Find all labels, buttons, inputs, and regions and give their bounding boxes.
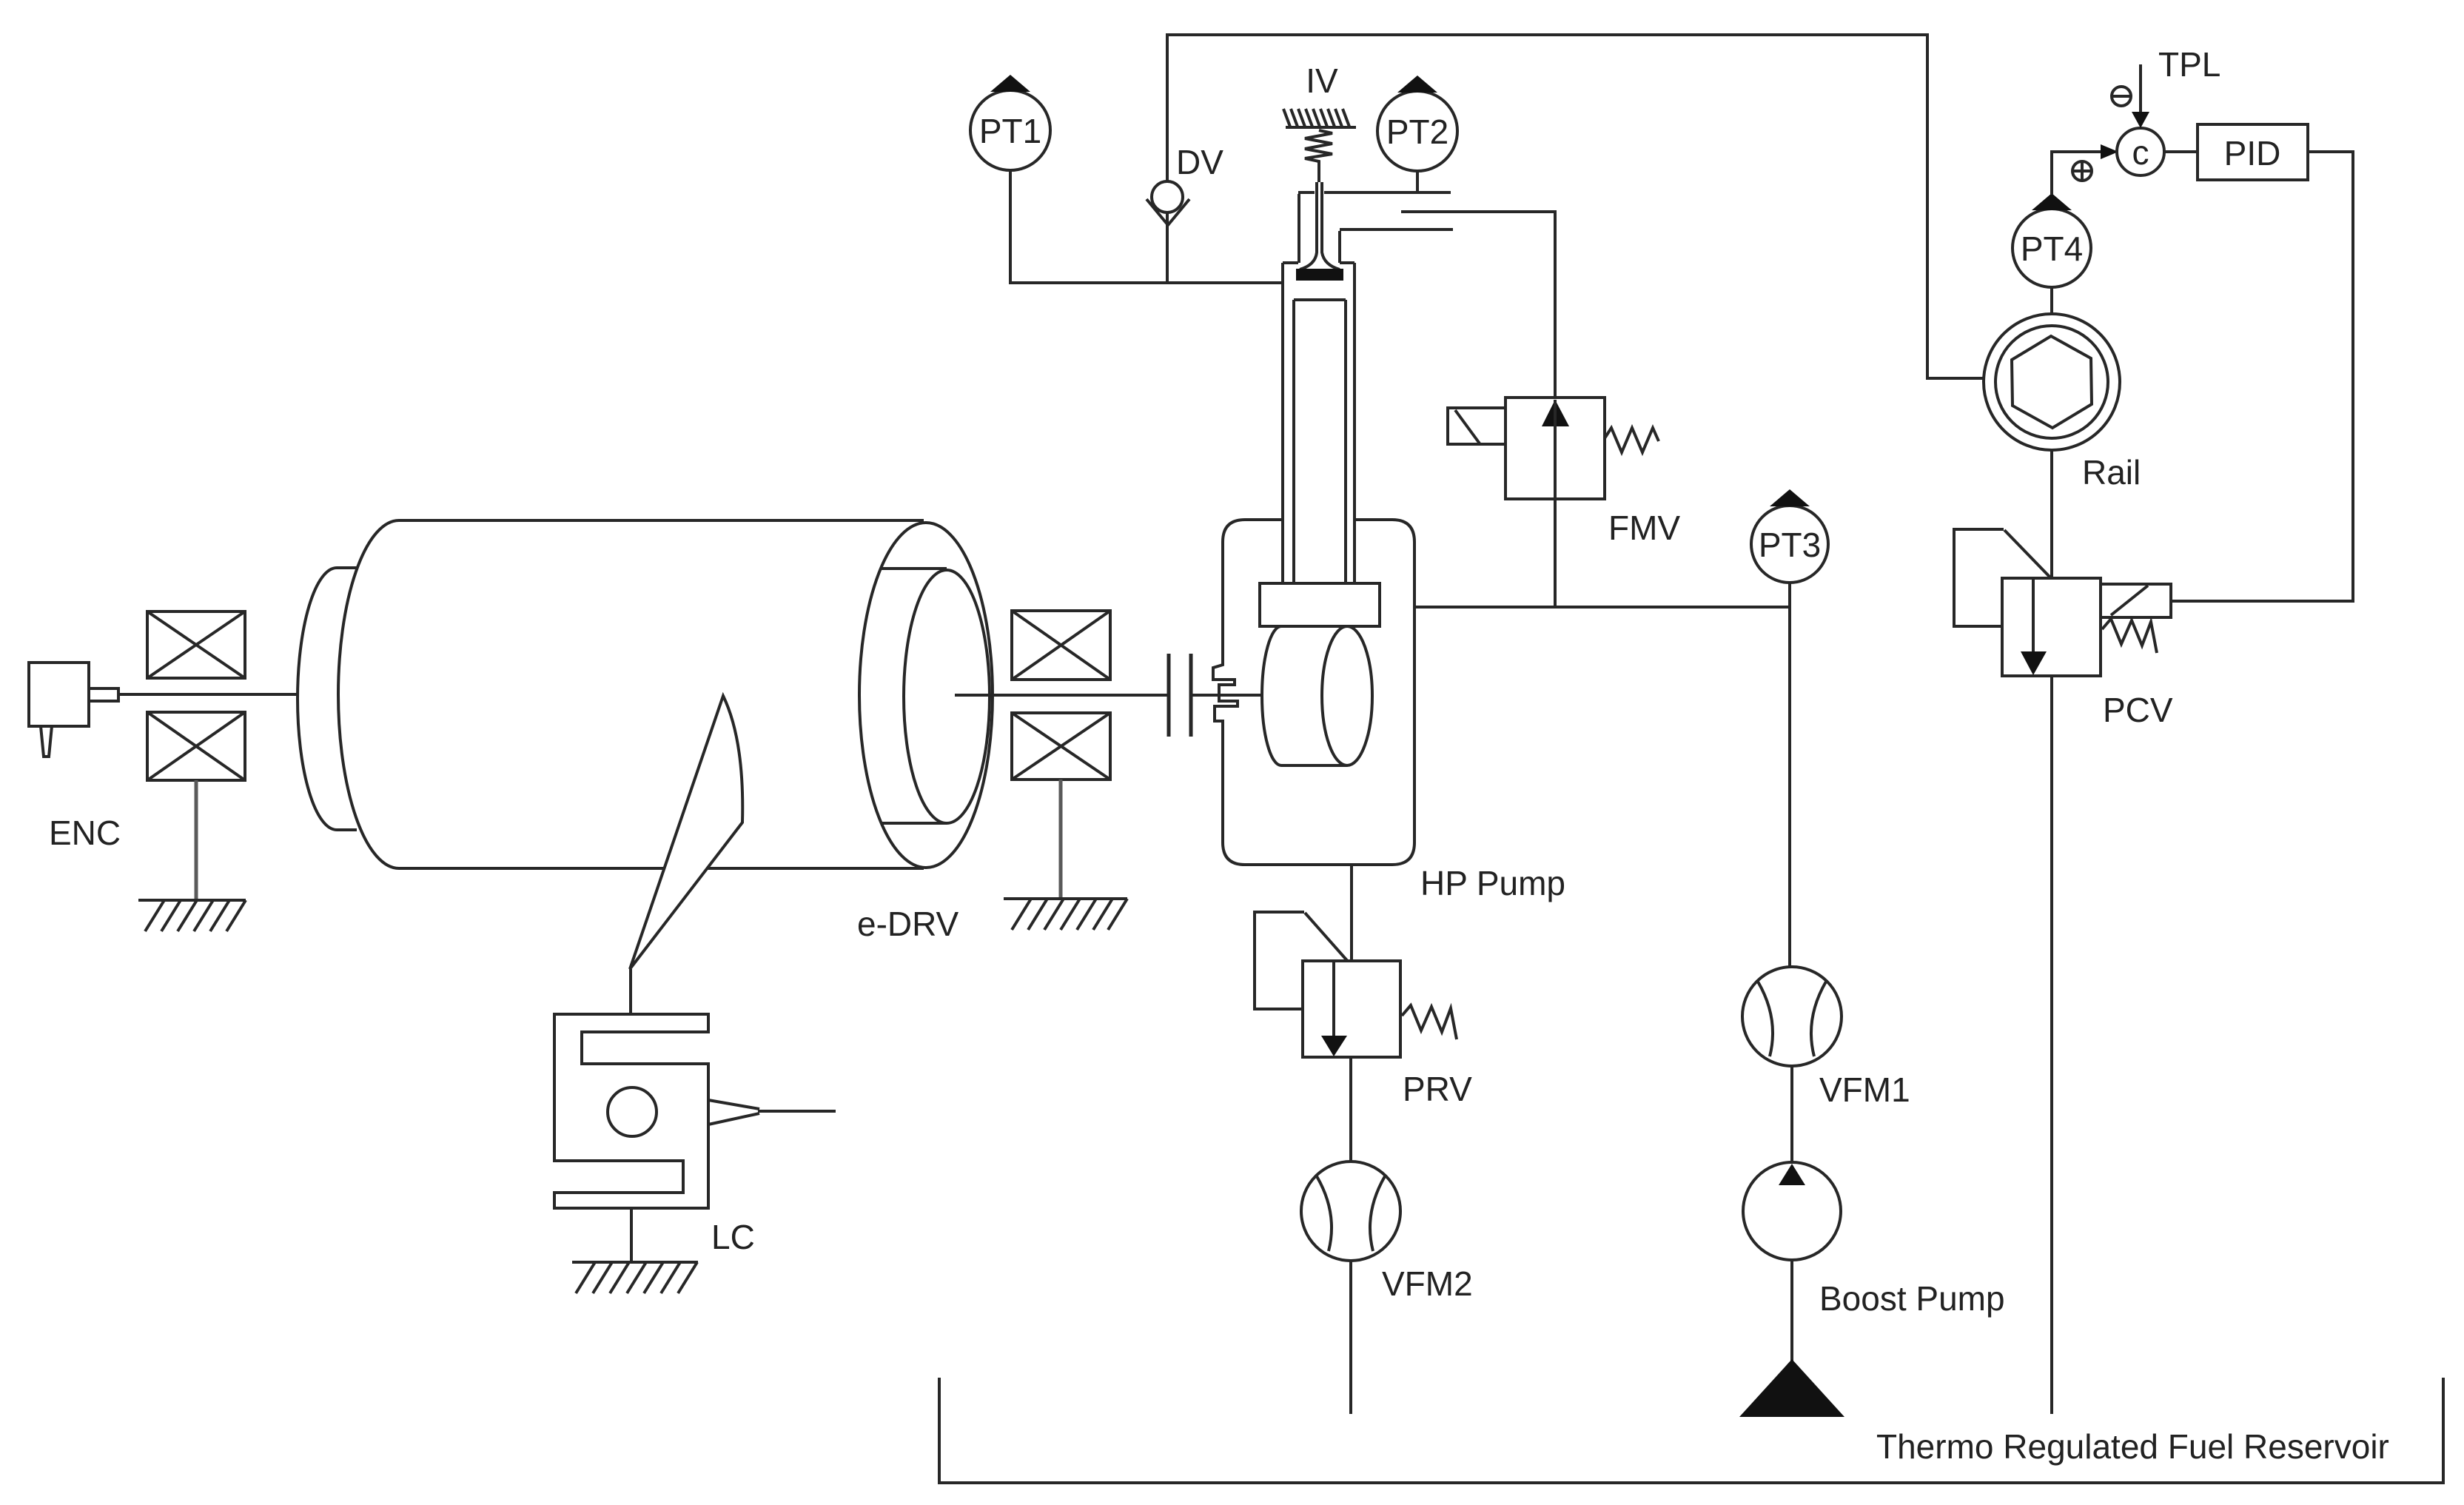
svg-text:VFM2: VFM2 bbox=[1382, 1264, 1473, 1303]
svg-text:Rail: Rail bbox=[2082, 453, 2141, 492]
svg-text:PCV: PCV bbox=[2103, 691, 2173, 729]
svg-text:Boost Pump: Boost Pump bbox=[1819, 1279, 2005, 1318]
svg-text:TPL: TPL bbox=[2158, 45, 2220, 84]
svg-text:LC: LC bbox=[711, 1218, 755, 1256]
svg-text:e-DRV: e-DRV bbox=[857, 905, 959, 943]
svg-text:PID: PID bbox=[2224, 134, 2281, 172]
svg-text:PT4: PT4 bbox=[2021, 229, 2083, 268]
svg-text:IV: IV bbox=[1306, 61, 1338, 100]
svg-text:Thermo Regulated Fuel Reservoi: Thermo Regulated Fuel Reservoir bbox=[1876, 1427, 2389, 1466]
svg-text:HP Pump: HP Pump bbox=[1420, 864, 1565, 902]
svg-text:ENC: ENC bbox=[49, 814, 121, 852]
svg-text:VFM1: VFM1 bbox=[1819, 1070, 1910, 1109]
svg-text:PRV: PRV bbox=[1403, 1070, 1472, 1108]
svg-text:FMV: FMV bbox=[1608, 509, 1680, 547]
svg-text:c: c bbox=[2132, 133, 2149, 172]
svg-text:PT2: PT2 bbox=[1386, 113, 1448, 151]
svg-text:DV: DV bbox=[1176, 143, 1223, 181]
svg-text:PT3: PT3 bbox=[1759, 526, 1821, 564]
svg-text:PT1: PT1 bbox=[979, 112, 1041, 150]
